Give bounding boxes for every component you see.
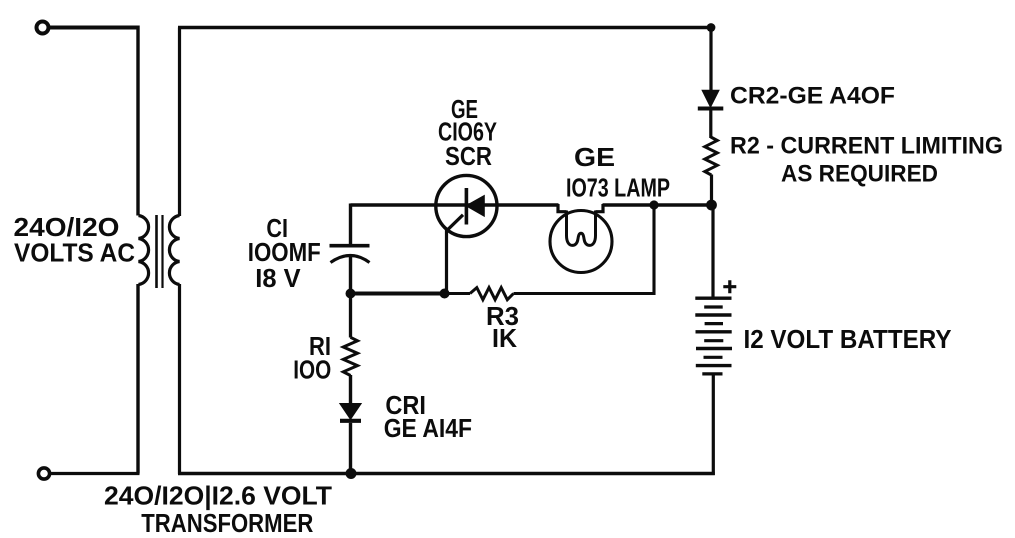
lamp DS1 circle [550, 211, 612, 273]
transformer T1 primary winding [139, 216, 149, 285]
wire secondary bottom vertical [178, 284, 181, 474]
svg-text:I8 V: I8 V [255, 265, 300, 293]
wire secondary top vertical [178, 28, 181, 217]
node C1/R3 junction [346, 289, 356, 299]
node CR1 bottom junction [346, 468, 357, 479]
wire battery top [711, 205, 714, 298]
wire battery bottom [712, 374, 715, 475]
wire lower bus left [351, 292, 445, 296]
wire right vertical upper [709, 26, 712, 92]
diode CR1 [341, 404, 360, 418]
svg-text:I2 VOLT BATTERY: I2 VOLT BATTERY [744, 326, 952, 354]
lamp left hook [558, 204, 567, 212]
battery BT1 plus sign [723, 280, 736, 293]
wire R1 to CR1 [349, 375, 352, 405]
capacitor C1 curved plate [331, 256, 370, 263]
wire bottom-left to terminal [51, 472, 140, 475]
wire R2 to node [710, 175, 713, 206]
capacitor C1 top plate [330, 244, 370, 248]
node main bus right [706, 200, 717, 211]
lamp right hook [596, 204, 604, 212]
svg-text:CR2-GE A4OF: CR2-GE A4OF [730, 83, 895, 110]
wire main bus right segment [603, 203, 714, 206]
resistor R3 [470, 288, 514, 300]
svg-text:IOOMF: IOOMF [248, 239, 321, 267]
wire CR1 to bus [349, 423, 352, 474]
wire bottom bus [178, 472, 715, 476]
svg-text:VOLTS AC: VOLTS AC [14, 239, 135, 267]
svg-text:R2 - CURRENT LIMITING: R2 - CURRENT LIMITING [730, 133, 1003, 160]
wire primary top vertical [136, 26, 139, 216]
wire gate to R3 [445, 292, 471, 295]
svg-text:IOO: IOO [293, 356, 331, 384]
svg-text:24O/I2O: 24O/I2O [14, 214, 120, 242]
SCR cathode bar [465, 188, 469, 225]
wire CR2 to R2 [709, 111, 712, 139]
node top corner [707, 23, 716, 32]
wire R3 to corner [514, 292, 656, 295]
wire top-left horizontal [50, 26, 140, 30]
wire C1 top vertical [349, 204, 352, 246]
wire top bus [178, 26, 712, 29]
battery plates [695, 297, 731, 300]
terminal top-left [37, 22, 49, 34]
resistor R1 [343, 337, 357, 375]
transformer core [155, 215, 158, 288]
diode CR2 [703, 91, 718, 106]
svg-text:AS REQUIRED: AS REQUIRED [781, 161, 938, 188]
transformer T1 secondary winding [169, 216, 179, 285]
SCR arrow [467, 196, 484, 215]
svg-text:TRANSFORMER: TRANSFORMER [141, 510, 313, 538]
svg-text:GE: GE [574, 144, 615, 172]
svg-text:IO73 LAMP: IO73 LAMP [566, 173, 670, 203]
wire R1 top [349, 294, 352, 338]
wire primary bottom vertical [136, 284, 139, 474]
svg-text:SCR: SCR [445, 143, 492, 171]
wire riser to main bus [652, 204, 655, 296]
wire C1 to node [349, 255, 352, 295]
node gate junction [440, 289, 450, 299]
node lamp/battery branch [649, 200, 658, 209]
svg-text:IK: IK [492, 325, 518, 353]
wire main bus left segment [351, 203, 559, 206]
svg-text:24O/I2O|I2.6 VOLT: 24O/I2O|I2.6 VOLT [104, 482, 332, 510]
svg-text:GE AI4F: GE AI4F [384, 415, 472, 443]
resistor R2 [705, 137, 718, 175]
terminal bottom-left [38, 468, 49, 479]
SCR gate lead [447, 215, 464, 294]
lamp filament [567, 211, 596, 246]
op SCR U1 circle [436, 175, 497, 236]
